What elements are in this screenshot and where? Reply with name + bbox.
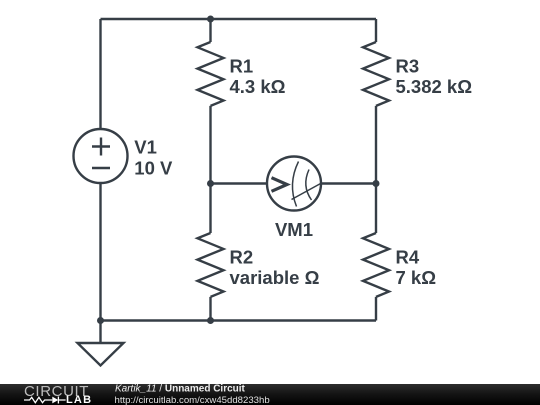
node D bottom left junction — [97, 317, 104, 324]
V1 minus sign — [92, 167, 110, 169]
wire R3 bottom to R4 top — [375, 106, 377, 233]
resistor R2 — [198, 233, 224, 297]
voltmeter VM1 circle — [267, 157, 321, 211]
wire R3 branch top lead — [375, 19, 377, 42]
wire R1 bottom to VM node — [209, 106, 211, 233]
V1 plus sign — [92, 138, 110, 156]
voltage source V1 circle — [74, 129, 128, 183]
wire top horizontal — [101, 18, 377, 20]
wire R1 branch top lead — [209, 19, 211, 42]
svg-text:5.382 kΩ: 5.382 kΩ — [396, 76, 473, 97]
resistor R3 — [363, 42, 389, 106]
svg-text:R4: R4 — [396, 246, 420, 267]
svg-text:R2: R2 — [230, 246, 254, 267]
wire VM1 left lead — [211, 182, 268, 184]
resistor R1 — [198, 42, 224, 106]
wire R2 bottom lead — [209, 297, 211, 321]
VM1 meter glyph — [272, 162, 322, 207]
svg-text:7 kΩ: 7 kΩ — [396, 267, 437, 288]
svg-text:R3: R3 — [396, 55, 420, 76]
wire left vertical top (to V1) — [99, 19, 101, 130]
node A top junction — [207, 16, 214, 23]
svg-text:V1: V1 — [134, 137, 157, 158]
svg-text:4.3 kΩ: 4.3 kΩ — [230, 76, 286, 97]
wire ground stub — [99, 321, 101, 344]
node E bottom R2 junction — [207, 317, 214, 324]
resistor R4 — [363, 233, 389, 297]
wire left vertical bottom (V1 to bottom rail) — [99, 183, 101, 321]
wire VM1 right lead — [321, 182, 376, 184]
ground — [78, 343, 124, 366]
svg-text:http://circuitlab.com/cxw45dd8: http://circuitlab.com/cxw45dd8233hb — [115, 395, 270, 405]
node C right meter junction — [373, 180, 380, 187]
svg-text:10 V: 10 V — [134, 157, 173, 178]
svg-text:variable Ω: variable Ω — [230, 267, 320, 288]
node B left meter junction — [207, 180, 214, 187]
svg-text:LAB: LAB — [66, 394, 92, 405]
svg-text:R1: R1 — [230, 55, 254, 76]
wire R4 bottom lead — [375, 297, 377, 321]
svg-text:Kartik_11 / Unnamed Circuit: Kartik_11 / Unnamed Circuit — [115, 384, 246, 395]
logo resistor-diode squiggle — [24, 397, 66, 404]
wire bottom horizontal rail — [101, 319, 377, 321]
svg-text:VM1: VM1 — [275, 219, 313, 240]
